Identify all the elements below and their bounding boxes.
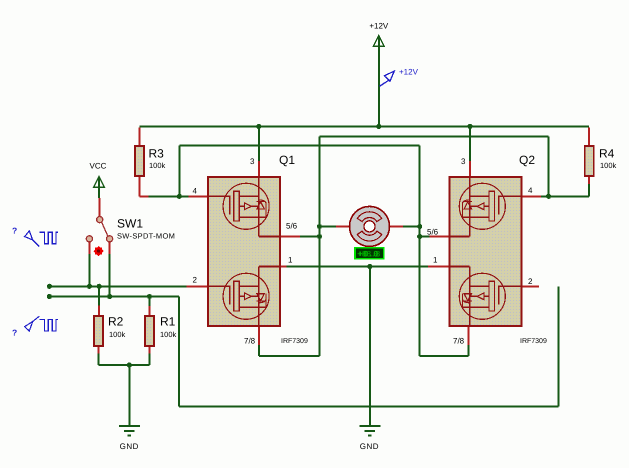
svg-text:7/8: 7/8: [453, 337, 465, 346]
svg-text:100k: 100k: [149, 161, 166, 170]
svg-text:2: 2: [528, 277, 533, 286]
svg-text:IRF7309: IRF7309: [520, 338, 547, 345]
svg-text:IRF7309: IRF7309: [281, 338, 308, 345]
svg-text:+12V: +12V: [399, 68, 419, 77]
svg-text:4: 4: [193, 187, 198, 196]
svg-text:+12V: +12V: [369, 22, 389, 31]
svg-text:3: 3: [250, 157, 255, 166]
svg-text:SW-SPDT-MOM: SW-SPDT-MOM: [117, 232, 175, 241]
svg-text:?: ?: [12, 328, 17, 338]
svg-text:5/6: 5/6: [286, 222, 298, 231]
svg-text:VCC: VCC: [90, 162, 107, 171]
svg-text:1: 1: [433, 256, 438, 265]
svg-text:R4: R4: [599, 147, 615, 161]
svg-text:100k: 100k: [109, 330, 126, 339]
svg-text:7/8: 7/8: [244, 337, 256, 346]
svg-text:Q2: Q2: [519, 153, 535, 167]
svg-text:4: 4: [528, 186, 533, 195]
svg-text:R1: R1: [160, 315, 176, 329]
svg-text:100k: 100k: [160, 330, 177, 339]
svg-text:R3: R3: [149, 147, 165, 161]
svg-text:SW1: SW1: [117, 217, 143, 231]
svg-text:2: 2: [193, 276, 198, 285]
svg-text:+0.0: +0.0: [358, 250, 378, 260]
svg-text:100k: 100k: [600, 161, 617, 170]
svg-text:Q1: Q1: [279, 153, 295, 167]
svg-text:GND: GND: [360, 442, 379, 451]
svg-text:1: 1: [288, 256, 293, 265]
svg-text:R2: R2: [108, 315, 124, 329]
svg-text:3: 3: [461, 157, 466, 166]
svg-text:?: ?: [12, 226, 17, 236]
svg-text:GND: GND: [120, 442, 139, 451]
svg-text:5/6: 5/6: [427, 228, 439, 237]
